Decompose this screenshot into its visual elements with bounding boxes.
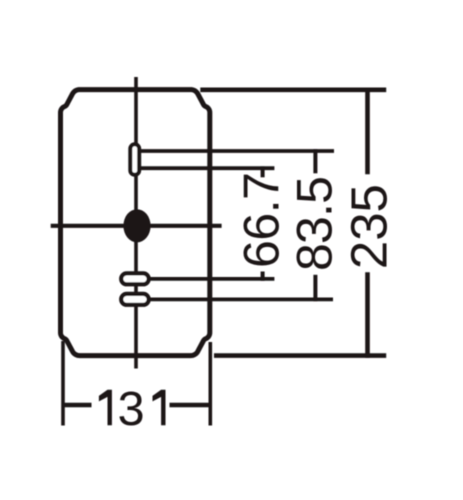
svg-text:235: 235 <box>341 184 398 269</box>
svg-text:66.7: 66.7 <box>234 172 290 268</box>
svg-text:3: 3 <box>118 382 145 436</box>
svg-text:83.5: 83.5 <box>287 176 343 271</box>
